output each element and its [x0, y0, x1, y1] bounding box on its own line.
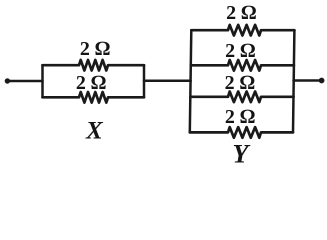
svg-text:2 Ω: 2 Ω: [225, 106, 255, 128]
svg-text:2 Ω: 2 Ω: [76, 72, 106, 94]
svg-text:2 Ω: 2 Ω: [225, 40, 255, 62]
svg-text:2 Ω: 2 Ω: [226, 2, 256, 24]
svg-text:2 Ω: 2 Ω: [225, 72, 255, 94]
svg-text:X: X: [85, 117, 104, 144]
svg-text:2 Ω: 2 Ω: [80, 38, 110, 60]
svg-text:Y: Y: [233, 140, 251, 169]
